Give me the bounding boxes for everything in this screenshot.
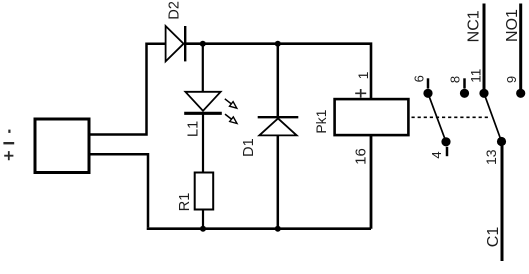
contact blade 6-4 xyxy=(428,93,446,142)
svg-text:11: 11 xyxy=(468,69,483,83)
resistor R1 xyxy=(195,173,214,210)
svg-text:D1: D1 xyxy=(241,138,257,157)
svg-text:R1: R1 xyxy=(177,193,193,212)
pin 9 terminal xyxy=(516,89,525,98)
pin 6 terminal xyxy=(423,89,432,98)
svg-text:16: 16 xyxy=(352,148,369,165)
contact blade 11-13 xyxy=(484,93,502,141)
connector J1 (input terminal box) xyxy=(35,119,89,173)
node junction bottom rail / D1 branch xyxy=(275,226,281,232)
svg-text:Pk1: Pk1 xyxy=(313,109,329,133)
diode D1 (flyback) xyxy=(258,117,299,135)
svg-text:C1: C1 xyxy=(485,227,502,248)
pin 8 stub wire xyxy=(463,78,466,88)
mechanical link (dashed) relay to contacts xyxy=(412,116,491,118)
wire top rail to D1 cathode xyxy=(277,44,280,118)
wire LED cathode to resistor R1 xyxy=(202,113,204,172)
svg-text:1: 1 xyxy=(355,71,371,79)
wire NO1 net to pin 9 xyxy=(519,4,522,90)
wire top rail to LED L1 anode xyxy=(202,44,204,92)
svg-text:L1: L1 xyxy=(186,121,202,137)
wire NC1 net to pin 11 xyxy=(483,4,486,90)
pin label + (coil polarity) xyxy=(355,89,366,98)
svg-text:NC1: NC1 xyxy=(466,10,483,42)
relay coil Pk1 xyxy=(335,99,409,135)
wire R1 to bottom rail xyxy=(202,211,204,229)
label "I" of connector xyxy=(3,142,14,144)
wire bottom rail xyxy=(147,227,371,230)
wire relay coil bottom to bottom rail xyxy=(370,135,373,229)
svg-text:13: 13 xyxy=(483,149,499,165)
label "-" polarity mark of connector xyxy=(8,130,10,133)
svg-text:6: 6 xyxy=(411,75,426,82)
svg-text:8: 8 xyxy=(448,76,463,83)
svg-text:9: 9 xyxy=(504,76,519,83)
svg-text:4: 4 xyxy=(429,151,444,158)
label "+" polarity mark of connector xyxy=(4,151,13,160)
wire D1 anode to bottom rail xyxy=(277,135,280,228)
pin 4 stub wire xyxy=(446,147,449,156)
node junction top rail / D1 branch xyxy=(275,41,281,47)
pin 11 terminal xyxy=(479,89,488,98)
pin 6 stub wire xyxy=(427,78,430,88)
LED L1 xyxy=(184,92,237,124)
wire connector bottom to bottom rail xyxy=(89,154,148,227)
pin 8 terminal xyxy=(460,89,469,98)
wire pin 13 to C1 net xyxy=(501,146,504,261)
svg-text:D2: D2 xyxy=(166,1,182,20)
node junction top rail / LED branch xyxy=(200,41,206,47)
wire connector top to D2 anode xyxy=(89,44,166,135)
pin 4 terminal xyxy=(441,137,450,146)
pin 13 terminal xyxy=(497,137,506,146)
node junction bottom rail / R1 branch xyxy=(200,226,206,232)
svg-text:NO1: NO1 xyxy=(504,9,521,42)
diode D2 xyxy=(166,26,186,61)
wire top rail D2 cathode to relay coil xyxy=(185,44,371,99)
